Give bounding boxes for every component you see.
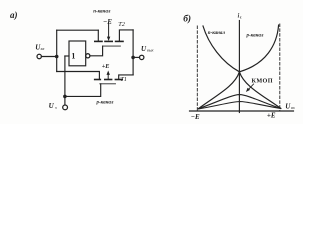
arrow KMOP pointer	[249, 84, 254, 89]
node control terminal Uz	[63, 105, 68, 110]
wire input bus vertical	[56, 30, 58, 71]
node junction control	[63, 95, 67, 99]
svg-text:б): б)	[183, 13, 191, 24]
svg-text:p-канал: p-канал	[96, 101, 114, 106]
svg-text:+E: +E	[267, 112, 276, 120]
svg-text:n-канал: n-канал	[208, 31, 226, 36]
curve p-channel	[198, 25, 278, 109]
dashed line +E	[279, 24, 281, 111]
transistor T2	[95, 40, 102, 42]
wire output vertical	[132, 30, 134, 75]
svg-text:вх: вх	[291, 105, 295, 110]
svg-text:T2: T2	[118, 21, 126, 28]
svg-text:T1: T1	[120, 76, 127, 83]
wire T1 right stub	[119, 75, 133, 79]
svg-text:с: с	[240, 15, 242, 20]
svg-text:КМОП: КМОП	[252, 78, 273, 85]
wire top rail	[57, 29, 99, 31]
wire control to T1 gate	[65, 84, 101, 97]
curve KMOP bell lower	[199, 102, 281, 109]
axis x	[190, 110, 294, 112]
wire control vertical	[64, 56, 66, 96]
node junction input bus	[55, 55, 59, 59]
op-amp box inverter U1	[69, 41, 86, 66]
wire Uin to bus	[41, 56, 56, 58]
wire output stub	[133, 56, 139, 58]
node junction output	[131, 56, 135, 60]
svg-text:1: 1	[71, 52, 75, 61]
wire control terminal stub	[64, 96, 66, 105]
wire T2 left stub	[97, 30, 99, 41]
svg-text:p-канал: p-канал	[246, 33, 264, 38]
wire bus to T1	[57, 72, 100, 79]
wire T2 gate lead	[90, 46, 103, 56]
node output terminal Uout	[140, 55, 144, 59]
T2 gate line	[103, 45, 121, 47]
dashed line -E	[196, 26, 198, 111]
curve KMOP bell	[199, 95, 281, 109]
svg-text:+E: +E	[102, 63, 110, 70]
supply +E arrow	[107, 74, 109, 79]
svg-text:з: з	[55, 105, 57, 110]
svg-text:−E: −E	[191, 113, 200, 121]
svg-text:вх: вх	[41, 46, 45, 51]
svg-text:−E: −E	[103, 18, 112, 26]
svg-text:n-канал: n-канал	[93, 9, 111, 14]
wire T2 right stub	[119, 30, 133, 41]
T1 gate line	[100, 83, 116, 85]
transistor T1	[95, 79, 101, 81]
svg-text:а): а)	[10, 10, 18, 20]
curve n-channel	[203, 26, 281, 108]
axis y	[238, 21, 240, 113]
supply -E arrow	[108, 24, 110, 38]
svg-text:вых: вых	[147, 48, 154, 53]
inverter bubble	[86, 54, 90, 58]
wire control to box input	[65, 55, 69, 57]
